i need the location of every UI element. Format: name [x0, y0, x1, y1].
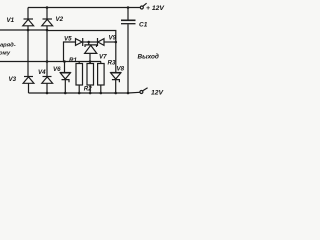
- node R2 bottom: [89, 92, 92, 95]
- node R1 bottom: [78, 92, 81, 95]
- zener V8: [110, 42, 121, 93]
- node V4 bottom: [46, 92, 49, 95]
- wire AC input 1: [0, 29, 47, 31]
- resistor R3: [98, 62, 105, 94]
- zener V7: [85, 45, 97, 62]
- svg-text:Выход: Выход: [138, 53, 159, 61]
- svg-text:V6: V6: [53, 66, 61, 73]
- node V2 top junction: [46, 6, 49, 9]
- svg-text:заряд-: заряд-: [0, 43, 16, 49]
- resistor R1: [76, 62, 83, 94]
- diode V4: [42, 77, 53, 94]
- zener V6: [60, 62, 71, 94]
- wire top rail (+): [28, 7, 140, 9]
- svg-text:V3: V3: [9, 76, 17, 83]
- wire V7 stub: [88, 42, 90, 45]
- node AC1-V2 junction: [46, 29, 49, 32]
- svg-text:ому: ому: [0, 51, 11, 57]
- svg-text:V9: V9: [109, 35, 117, 42]
- svg-text:12V: 12V: [151, 90, 165, 97]
- node V8 bottom: [114, 92, 117, 95]
- wire bottom rail (-): [29, 92, 129, 94]
- diode V2: [42, 19, 53, 26]
- node V7/R2 junction: [89, 60, 92, 63]
- svg-text:V1: V1: [7, 17, 15, 24]
- node C1 top junction: [127, 6, 130, 9]
- node AC2-V4 junction: [46, 60, 49, 63]
- node V5-V9-V7 junction: [87, 41, 90, 44]
- wire AC input 2: [0, 61, 101, 63]
- node AC1-V1 junction: [27, 29, 30, 32]
- node C1 bottom: [127, 92, 130, 95]
- node V6 column junction: [63, 60, 66, 63]
- resistor R2: [87, 62, 94, 94]
- wire V5 left elbow: [64, 42, 76, 62]
- svg-text:V4: V4: [38, 69, 46, 76]
- svg-text:V7: V7: [99, 54, 107, 61]
- capacitor C1: [121, 8, 136, 94]
- node R3 bottom: [100, 92, 103, 95]
- svg-text:R2: R2: [84, 86, 92, 93]
- svg-text:R3: R3: [108, 60, 116, 67]
- svg-text:C1: C1: [139, 22, 148, 29]
- node V9 right junction: [115, 41, 118, 44]
- diode V1: [23, 19, 34, 26]
- diode V9: [98, 38, 116, 46]
- diode V3: [23, 77, 34, 94]
- svg-text:V5: V5: [64, 36, 72, 43]
- terminal +12V top: [140, 3, 146, 9]
- svg-text:+ 12V: + 12V: [146, 5, 165, 12]
- node V6 bottom: [64, 92, 67, 95]
- wire V2/V4 column: [46, 8, 48, 20]
- svg-text:V2: V2: [56, 16, 64, 23]
- wire AC1 to stabilizer right column: [47, 31, 116, 43]
- svg-text:V8: V8: [117, 66, 125, 73]
- terminal -12V bottom: [128, 88, 148, 94]
- svg-text:R1: R1: [69, 57, 77, 64]
- diode V5: [76, 38, 98, 46]
- wire V1/V3 column: [27, 8, 29, 20]
